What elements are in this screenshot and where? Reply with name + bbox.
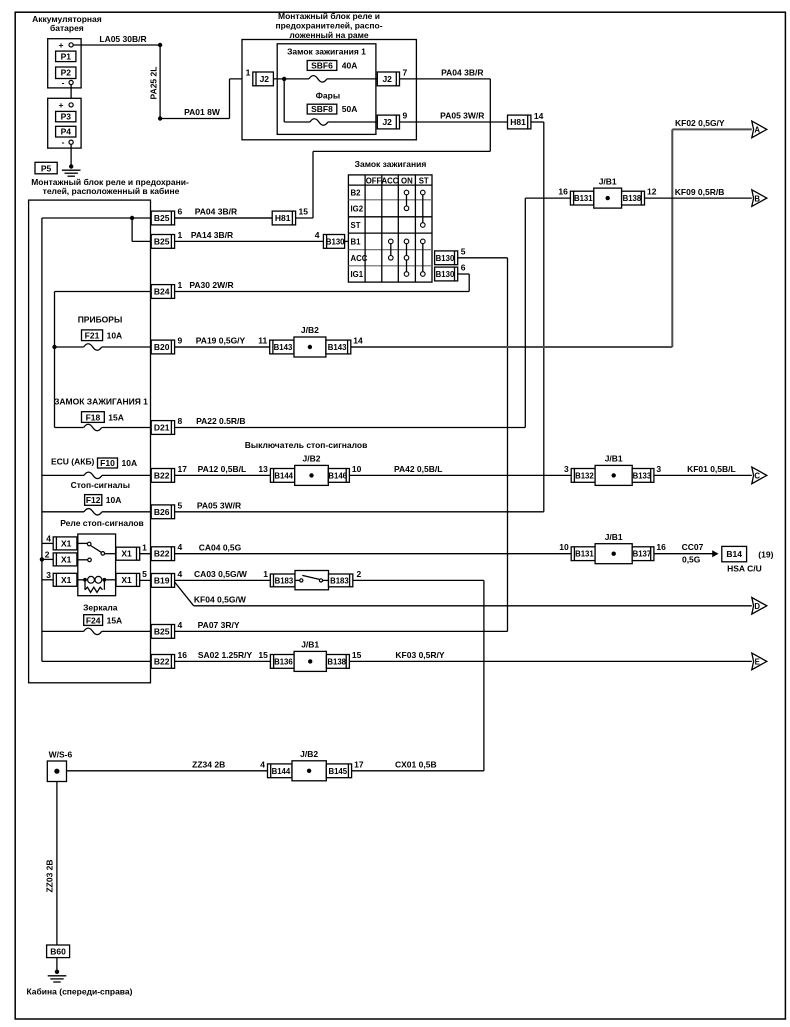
svg-text:PA12 0,5B/L: PA12 0,5B/L bbox=[198, 464, 247, 474]
fuse SBF8 bbox=[307, 104, 337, 114]
svg-text:B26: B26 bbox=[154, 507, 170, 517]
svg-text:B24: B24 bbox=[154, 287, 170, 297]
svg-text:15: 15 bbox=[299, 207, 309, 217]
svg-text:PA19 0,5G/Y: PA19 0,5G/Y bbox=[196, 336, 246, 346]
svg-text:ST: ST bbox=[351, 221, 361, 230]
wire B60-ground bbox=[56, 958, 58, 972]
svg-text:0,5G: 0,5G bbox=[682, 555, 701, 565]
svg-text:Замок зажигания: Замок зажигания bbox=[355, 159, 427, 169]
connector B24 pin 1 bbox=[151, 285, 174, 299]
connector X1 right 2 bbox=[116, 573, 140, 586]
wire PA42 bbox=[349, 474, 571, 476]
svg-text:7: 7 bbox=[403, 68, 408, 78]
svg-text:B143: B143 bbox=[274, 343, 293, 352]
svg-text:ACC: ACC bbox=[382, 176, 399, 185]
ground battery bbox=[69, 164, 73, 168]
svg-text:HSA C/U: HSA C/U bbox=[727, 564, 762, 574]
svg-text:12: 12 bbox=[647, 187, 657, 197]
svg-text:B136: B136 bbox=[274, 657, 293, 666]
svg-text:ZZ03 2B: ZZ03 2B bbox=[45, 859, 55, 892]
svg-text:B137: B137 bbox=[633, 550, 652, 559]
svg-text:4: 4 bbox=[315, 230, 320, 240]
svg-text:5: 5 bbox=[461, 246, 466, 256]
arrow C bbox=[752, 467, 767, 484]
svg-text:1: 1 bbox=[246, 68, 251, 78]
contact line ST B2-ST bbox=[422, 193, 424, 226]
J/B1 junction box bbox=[294, 651, 326, 671]
wire F21 row bbox=[55, 346, 84, 348]
svg-text:B146: B146 bbox=[328, 471, 347, 480]
wire PA19 grey bbox=[175, 346, 673, 348]
svg-text:13: 13 bbox=[258, 464, 268, 474]
svg-text:PA04 3B/R: PA04 3B/R bbox=[441, 68, 483, 78]
svg-text:LA05 30B/R: LA05 30B/R bbox=[99, 34, 146, 44]
svg-text:J2: J2 bbox=[382, 74, 392, 84]
svg-text:B20: B20 bbox=[154, 342, 170, 352]
connector B130 pin 5 bbox=[435, 251, 458, 265]
svg-text:B138: B138 bbox=[623, 194, 642, 203]
connector B20 pin 9 bbox=[151, 340, 174, 354]
connector B60 bbox=[47, 945, 70, 958]
svg-text:PA22 0.5R/B: PA22 0.5R/B bbox=[196, 416, 245, 426]
svg-text:P4: P4 bbox=[61, 127, 72, 137]
svg-text:F21: F21 bbox=[85, 331, 100, 341]
J/B1 junction box bbox=[595, 465, 632, 485]
svg-text:A: A bbox=[754, 126, 760, 135]
svg-text:B144: B144 bbox=[274, 471, 293, 480]
battery P2 bbox=[56, 67, 76, 79]
svg-text:B131: B131 bbox=[574, 194, 593, 203]
svg-text:4: 4 bbox=[178, 620, 183, 630]
connector J2 pin 7 bbox=[377, 72, 399, 86]
node SBF6/SBF8 bbox=[282, 77, 286, 81]
svg-text:W/S-6: W/S-6 bbox=[49, 750, 73, 760]
svg-text:50A: 50A bbox=[342, 104, 358, 114]
svg-text:CX01 0,5B: CX01 0,5B bbox=[395, 759, 437, 769]
connector B26 pin 5 bbox=[151, 505, 174, 519]
relay coil resistor bbox=[84, 580, 86, 590]
fuse F18 15A bbox=[82, 412, 105, 423]
connector X1 right 1 bbox=[116, 547, 140, 560]
svg-text:J/B1: J/B1 bbox=[605, 454, 623, 464]
svg-text:CA03 0,5G/W: CA03 0,5G/W bbox=[194, 569, 248, 579]
connector B25 pin 1 bbox=[151, 235, 174, 249]
svg-text:B145: B145 bbox=[328, 767, 347, 776]
wire PA22 riser bbox=[524, 198, 526, 427]
svg-text:IG2: IG2 bbox=[351, 205, 364, 214]
svg-text:4: 4 bbox=[260, 759, 265, 769]
arrow A bbox=[752, 121, 767, 138]
svg-text:PA30 2W/R: PA30 2W/R bbox=[189, 280, 233, 290]
contact line ST B1-IG1 bbox=[422, 241, 424, 274]
svg-text:J2: J2 bbox=[260, 74, 270, 84]
connector B143 pin 14 bbox=[326, 340, 351, 354]
svg-text:15: 15 bbox=[352, 650, 362, 660]
svg-text:J/B1: J/B1 bbox=[301, 640, 319, 650]
wire ZZ34 2B bbox=[67, 770, 271, 772]
wire KF01 bbox=[654, 474, 752, 476]
svg-text:F24: F24 bbox=[86, 615, 101, 625]
svg-text:X1: X1 bbox=[61, 538, 72, 548]
svg-text:X1: X1 bbox=[61, 575, 72, 585]
connector H81 (PA04) bbox=[175, 217, 273, 219]
svg-text:H81: H81 bbox=[275, 213, 291, 223]
svg-text:ST: ST bbox=[419, 176, 429, 185]
wire PA30 row bbox=[55, 291, 470, 293]
svg-text:B22: B22 bbox=[154, 656, 170, 666]
svg-text:B25: B25 bbox=[154, 236, 170, 246]
svg-text:B25: B25 bbox=[154, 626, 170, 636]
node PA25/PA01 bbox=[158, 116, 162, 120]
relay box bbox=[78, 534, 116, 596]
svg-text:B22: B22 bbox=[154, 549, 170, 559]
svg-text:9: 9 bbox=[403, 111, 408, 121]
svg-text:B133: B133 bbox=[633, 471, 652, 480]
wire CA04 run bbox=[140, 553, 572, 555]
svg-text:4: 4 bbox=[46, 534, 51, 544]
node B25 feed bbox=[130, 216, 134, 220]
wire F10 row bbox=[42, 474, 84, 476]
svg-text:Замок зажигания 1: Замок зажигания 1 bbox=[287, 46, 366, 56]
svg-text:10A: 10A bbox=[122, 458, 138, 468]
svg-text:X1: X1 bbox=[61, 554, 72, 564]
wire PA14 row bbox=[132, 240, 323, 242]
wire KF09 bbox=[645, 197, 752, 199]
frame fuse box inner bbox=[277, 44, 376, 135]
svg-text:3: 3 bbox=[46, 570, 51, 580]
wire feed bus A bbox=[41, 218, 43, 661]
svg-text:PA05 3W/R: PA05 3W/R bbox=[197, 501, 241, 511]
svg-text:PA07 3R/Y: PA07 3R/Y bbox=[198, 620, 240, 630]
wire SBF8 branch bbox=[283, 79, 285, 122]
svg-text:15A: 15A bbox=[108, 412, 124, 422]
svg-text:B183: B183 bbox=[330, 576, 349, 585]
connector P5 bbox=[35, 162, 57, 174]
J/B1 junction box bbox=[595, 544, 632, 564]
connector H81 (PA05) bbox=[508, 115, 531, 129]
svg-text:C: C bbox=[754, 472, 760, 481]
arrow B bbox=[752, 190, 767, 207]
svg-text:1: 1 bbox=[178, 230, 183, 240]
svg-text:3: 3 bbox=[564, 464, 569, 474]
svg-text:KF04 0,5G/W: KF04 0,5G/W bbox=[194, 595, 247, 605]
svg-text:B1: B1 bbox=[351, 238, 362, 247]
svg-text:H81: H81 bbox=[510, 117, 526, 127]
connector B145 pin 17 bbox=[326, 764, 351, 778]
connector B25 pin 4 bbox=[151, 625, 174, 639]
connector B25 pin 6 bbox=[151, 211, 174, 225]
wire ACC output bbox=[458, 257, 508, 259]
svg-text:8: 8 bbox=[178, 416, 183, 426]
svg-text:16: 16 bbox=[178, 650, 188, 660]
svg-text:17: 17 bbox=[354, 759, 364, 769]
svg-text:2: 2 bbox=[45, 550, 50, 560]
fuse SBF6 bbox=[307, 61, 337, 71]
svg-text:SA02 1.25R/Y: SA02 1.25R/Y bbox=[198, 650, 253, 660]
svg-text:9: 9 bbox=[178, 336, 183, 346]
svg-text:ON: ON bbox=[401, 176, 413, 185]
svg-text:J/B2: J/B2 bbox=[301, 325, 319, 335]
svg-text:B143: B143 bbox=[328, 343, 347, 352]
svg-text:11: 11 bbox=[258, 336, 267, 346]
arrow E bbox=[752, 653, 767, 670]
svg-text:14: 14 bbox=[534, 111, 544, 121]
svg-text:10: 10 bbox=[559, 542, 569, 552]
svg-text:(19): (19) bbox=[758, 549, 773, 559]
connector B22 pin 4 bbox=[151, 547, 174, 561]
connector B138 pin 15 bbox=[326, 655, 349, 669]
svg-text:ложенный на раме: ложенный на раме bbox=[289, 30, 369, 40]
wire CA03 run bbox=[140, 579, 271, 581]
svg-text:4: 4 bbox=[178, 569, 183, 579]
svg-text:B138: B138 bbox=[327, 657, 346, 666]
svg-text:P5: P5 bbox=[41, 163, 52, 173]
svg-text:17: 17 bbox=[178, 464, 188, 474]
connector B137 pin 16 bbox=[632, 547, 654, 561]
svg-text:1: 1 bbox=[142, 543, 147, 553]
svg-text:B22: B22 bbox=[154, 470, 170, 480]
svg-text:Стоп-сигналы: Стоп-сигналы bbox=[71, 480, 130, 490]
svg-text:B130: B130 bbox=[436, 254, 455, 263]
svg-text:P2: P2 bbox=[61, 68, 72, 78]
svg-text:1: 1 bbox=[178, 280, 183, 290]
svg-text:5: 5 bbox=[142, 569, 147, 579]
svg-text:ЗАМОК ЗАЖИГАНИЯ 1: ЗАМОК ЗАЖИГАНИЯ 1 bbox=[54, 397, 148, 407]
svg-text:10: 10 bbox=[352, 464, 362, 474]
svg-text:KF02 0,5G/Y: KF02 0,5G/Y bbox=[675, 118, 725, 128]
wire CC07 arrow bbox=[654, 553, 713, 555]
connector B130 pin 6 bbox=[435, 267, 458, 281]
fuse F21 10A bbox=[82, 330, 103, 341]
wire PA01 8W bbox=[160, 118, 229, 120]
ignition switch table grid bbox=[348, 175, 432, 282]
svg-text:ECU (АКБ): ECU (АКБ) bbox=[51, 456, 95, 466]
node relay pin2 feed bbox=[40, 557, 44, 561]
wire SBF6 row bbox=[273, 78, 309, 80]
svg-text:-: - bbox=[62, 137, 65, 147]
svg-text:6: 6 bbox=[461, 263, 466, 273]
svg-text:Фары: Фары bbox=[316, 90, 340, 100]
switch contacts bbox=[404, 190, 409, 195]
wire B130-4 stub bbox=[345, 240, 349, 242]
svg-text:KF09 0,5R/B: KF09 0,5R/B bbox=[675, 187, 725, 197]
svg-text:B14: B14 bbox=[726, 549, 742, 559]
svg-text:PA01 8W: PA01 8W bbox=[184, 107, 221, 117]
J/B2 junction box bbox=[292, 761, 326, 781]
battery P1/P2 box bbox=[48, 39, 81, 88]
node F21 bbox=[52, 345, 56, 349]
svg-text:CC07: CC07 bbox=[682, 542, 704, 552]
ground cab bbox=[55, 970, 59, 974]
svg-text:F10: F10 bbox=[100, 458, 115, 468]
relay contact 2 bbox=[78, 559, 88, 561]
svg-text:KF03 0,5R/Y: KF03 0,5R/Y bbox=[395, 650, 444, 660]
svg-text:SBF8: SBF8 bbox=[311, 104, 333, 114]
wire relay feeds bbox=[42, 542, 53, 544]
contact line ON B2-IG2 bbox=[406, 193, 408, 209]
svg-text:B130: B130 bbox=[326, 237, 345, 246]
svg-text:ПРИБОРЫ: ПРИБОРЫ bbox=[78, 314, 123, 324]
wire CX01 bbox=[352, 770, 484, 772]
wire feed bus B bbox=[54, 292, 56, 428]
svg-text:батарея: батарея bbox=[50, 23, 84, 33]
svg-text:-: - bbox=[62, 77, 65, 87]
J/B2 junction box bbox=[295, 465, 329, 485]
node LA05/PA25 bbox=[158, 43, 162, 47]
connector D21 pin 8 bbox=[151, 421, 174, 435]
svg-text:J2: J2 bbox=[382, 117, 392, 127]
svg-text:+: + bbox=[59, 40, 64, 50]
svg-text:F18: F18 bbox=[86, 412, 101, 422]
connector B14 bbox=[722, 546, 747, 561]
connector J2 pin 9 bbox=[377, 115, 399, 129]
wire B183 out bbox=[353, 579, 484, 581]
svg-text:J/B2: J/B2 bbox=[300, 749, 318, 759]
svg-text:P3: P3 bbox=[61, 112, 72, 122]
connector B22 pin 17 bbox=[151, 469, 174, 483]
svg-text:16: 16 bbox=[656, 542, 666, 552]
svg-text:15: 15 bbox=[258, 650, 268, 660]
svg-text:B: B bbox=[754, 194, 760, 203]
svg-text:B60: B60 bbox=[50, 947, 66, 957]
svg-text:PA25 2L: PA25 2L bbox=[149, 67, 159, 100]
battery P3 bbox=[56, 111, 76, 121]
cabin block box bbox=[29, 200, 151, 683]
wire F12 row bbox=[42, 511, 84, 513]
wire PA04 3B/R top bbox=[400, 78, 491, 80]
wire PA25 2L bbox=[159, 45, 161, 119]
wire PA04 row bbox=[42, 217, 296, 219]
wire F18 row bbox=[55, 427, 84, 429]
svg-text:PA14 3B/R: PA14 3B/R bbox=[191, 230, 233, 240]
wire F24 row bbox=[42, 630, 84, 632]
connector B146 pin 10 bbox=[328, 469, 349, 483]
svg-text:SBF6: SBF6 bbox=[311, 61, 333, 71]
svg-text:J/B1: J/B1 bbox=[605, 532, 623, 542]
svg-text:J/B1: J/B1 bbox=[599, 176, 617, 186]
contact line ON B1-IG1 bbox=[406, 241, 408, 274]
svg-text:Реле стоп-сигналов: Реле стоп-сигналов bbox=[60, 518, 144, 528]
wire battery1-battery2 bbox=[70, 85, 72, 103]
svg-text:B19: B19 bbox=[154, 575, 170, 585]
relay contact bbox=[78, 542, 87, 544]
svg-text:E: E bbox=[755, 658, 760, 667]
svg-text:ACC: ACC bbox=[351, 254, 368, 263]
relay coil bbox=[78, 579, 83, 581]
svg-text:B131: B131 bbox=[575, 550, 594, 559]
svg-text:IG1: IG1 bbox=[351, 270, 364, 279]
svg-text:B130: B130 bbox=[436, 270, 455, 279]
svg-text:Кабина (спереди-справа): Кабина (спереди-справа) bbox=[27, 986, 133, 996]
svg-text:Выключатель стоп-сигналов: Выключатель стоп-сигналов bbox=[245, 440, 368, 450]
svg-text:10A: 10A bbox=[106, 495, 122, 505]
svg-text:B183: B183 bbox=[275, 576, 294, 585]
connector B22 pin 16 bbox=[151, 655, 174, 669]
battery P1 bbox=[56, 51, 76, 62]
battery P3/P4 box bbox=[48, 98, 81, 148]
svg-text:6: 6 bbox=[178, 207, 183, 217]
svg-text:P1: P1 bbox=[61, 51, 72, 61]
svg-text:OFF: OFF bbox=[366, 176, 382, 185]
svg-text:X1: X1 bbox=[121, 549, 132, 559]
wire ZZ03 2B bbox=[56, 782, 58, 946]
svg-text:F12: F12 bbox=[86, 495, 101, 505]
fuse F10 10A bbox=[98, 458, 118, 468]
connector B138 pin 12 bbox=[622, 191, 645, 205]
svg-text:2: 2 bbox=[357, 569, 362, 579]
svg-text:5: 5 bbox=[178, 500, 183, 510]
contact line ACC B1-ACC bbox=[390, 241, 392, 257]
svg-text:Зеркала: Зеркала bbox=[83, 602, 118, 612]
svg-text:J/B2: J/B2 bbox=[303, 454, 321, 464]
svg-text:+: + bbox=[59, 100, 64, 110]
svg-text:CA04 0,5G: CA04 0,5G bbox=[199, 542, 242, 552]
svg-text:PA42 0,5B/L: PA42 0,5B/L bbox=[394, 464, 443, 474]
svg-text:PA05 3W/R: PA05 3W/R bbox=[440, 111, 484, 121]
J/B2 junction box bbox=[294, 337, 326, 357]
svg-text:14: 14 bbox=[353, 336, 363, 346]
svg-text:1: 1 bbox=[263, 569, 268, 579]
fuse F12 10A bbox=[85, 495, 102, 506]
svg-text:X1: X1 bbox=[121, 575, 132, 585]
svg-text:B132: B132 bbox=[575, 471, 594, 480]
J/B1 junction box bbox=[594, 188, 622, 208]
svg-text:B25: B25 bbox=[154, 213, 170, 223]
svg-text:16: 16 bbox=[558, 187, 568, 197]
connector B19 pin 4 bbox=[151, 574, 174, 588]
svg-text:10A: 10A bbox=[107, 331, 123, 341]
svg-text:D: D bbox=[754, 602, 760, 611]
wire LA05 30B/R bbox=[73, 44, 160, 46]
arrow D bbox=[752, 598, 767, 615]
svg-text:KF01 0,5B/L: KF01 0,5B/L bbox=[687, 464, 736, 474]
svg-text:40A: 40A bbox=[342, 61, 358, 71]
wire KF04 bbox=[175, 582, 194, 606]
svg-text:B144: B144 bbox=[272, 767, 291, 776]
svg-text:телей, расположенный в кабине: телей, расположенный в кабине bbox=[43, 186, 180, 196]
connector B133 pin 3 bbox=[632, 469, 654, 483]
svg-text:PA04 3B/R: PA04 3B/R bbox=[195, 207, 237, 217]
wire IG1 output bbox=[458, 273, 470, 275]
svg-text:15A: 15A bbox=[107, 615, 123, 625]
wire battery2-ground bbox=[70, 144, 72, 166]
wire SA02 row bbox=[42, 660, 752, 662]
wire PA05 3W/R top bbox=[400, 121, 508, 123]
frame fuse box outer bbox=[242, 40, 416, 140]
fuse F24 15A bbox=[84, 615, 103, 626]
battery P4 bbox=[56, 126, 76, 137]
svg-text:D21: D21 bbox=[154, 423, 170, 433]
svg-text:3: 3 bbox=[656, 464, 661, 474]
svg-text:B2: B2 bbox=[351, 189, 362, 198]
svg-text:ZZ34 2B: ZZ34 2B bbox=[192, 759, 225, 769]
wire H81 riser bbox=[531, 121, 544, 123]
svg-text:4: 4 bbox=[178, 542, 183, 552]
